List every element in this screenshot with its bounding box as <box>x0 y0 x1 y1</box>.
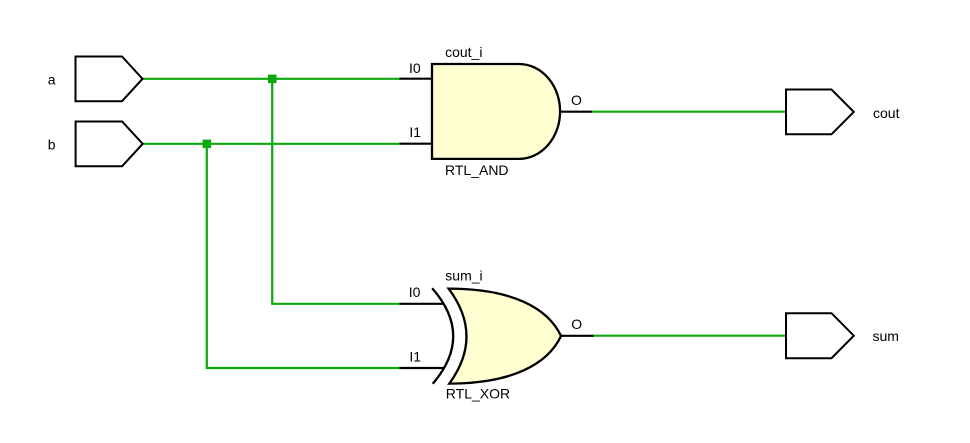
XOR pin stub I1 <box>400 367 445 369</box>
wire net b vertical drop to XOR I1 <box>207 144 400 368</box>
svg-text:a: a <box>48 72 56 88</box>
AND pin stub I0 <box>400 78 433 80</box>
output port sum <box>786 313 854 358</box>
svg-text:I0: I0 <box>409 284 421 300</box>
wire net a vertical drop to XOR I0 <box>272 79 399 304</box>
wire net b horizontal <box>143 143 400 145</box>
svg-text:RTL_XOR: RTL_XOR <box>446 386 510 402</box>
input port b <box>76 122 143 167</box>
svg-text:sum: sum <box>873 328 899 344</box>
svg-text:I1: I1 <box>409 348 421 364</box>
svg-text:RTL_AND: RTL_AND <box>445 162 509 178</box>
junction node a <box>268 75 277 84</box>
svg-text:cout_i: cout_i <box>445 44 482 60</box>
xor-gate sum_i outer input arc <box>432 288 453 384</box>
AND pin stub I1 <box>400 143 433 145</box>
junction node b <box>203 140 212 149</box>
svg-text:sum_i: sum_i <box>445 268 482 284</box>
wire net a horizontal <box>143 78 400 80</box>
XOR pin stub I0 <box>400 303 445 305</box>
and-gate cout_i <box>432 64 560 159</box>
svg-text:I0: I0 <box>409 60 421 76</box>
wire net cout <box>591 111 786 113</box>
svg-text:O: O <box>571 92 582 108</box>
svg-text:O: O <box>571 316 582 332</box>
svg-text:b: b <box>48 137 56 153</box>
output port cout <box>786 90 854 135</box>
svg-text:I1: I1 <box>409 124 421 140</box>
wire net sum <box>591 335 786 337</box>
svg-text:cout: cout <box>873 105 900 121</box>
xor-gate sum_i body <box>449 289 561 384</box>
input port a <box>76 57 143 102</box>
AND pin stub O <box>559 111 592 113</box>
XOR pin stub O <box>561 335 594 337</box>
